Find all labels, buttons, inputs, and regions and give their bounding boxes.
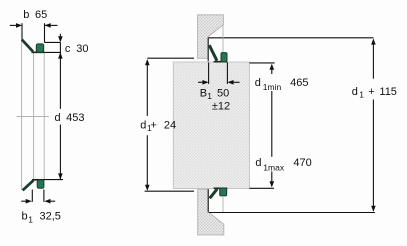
svg-text:50: 50 (217, 87, 229, 99)
svg-text:d: d (55, 112, 61, 124)
svg-text:453: 453 (66, 112, 84, 124)
svg-text:+: + (368, 86, 374, 98)
svg-text:c: c (65, 43, 71, 55)
svg-text:1max: 1max (263, 162, 285, 172)
svg-text:30: 30 (76, 43, 88, 55)
svg-text:465: 465 (290, 77, 308, 89)
svg-text:1: 1 (207, 91, 212, 101)
svg-text:+: + (150, 119, 156, 131)
svg-text:b: b (23, 9, 29, 21)
svg-text:24: 24 (164, 119, 176, 131)
svg-text:1: 1 (359, 90, 364, 100)
svg-text:d: d (255, 157, 261, 169)
svg-text:1min: 1min (263, 82, 282, 92)
svg-text:115: 115 (379, 86, 397, 98)
svg-text:d: d (352, 86, 358, 98)
svg-text:d: d (140, 119, 146, 131)
svg-text:1: 1 (28, 215, 33, 225)
svg-text:B: B (200, 87, 207, 99)
svg-text:470: 470 (293, 157, 311, 169)
svg-text:±12: ±12 (212, 101, 230, 113)
svg-text:b: b (22, 211, 28, 223)
svg-text:32,5: 32,5 (40, 211, 61, 223)
svg-text:d: d (255, 77, 261, 89)
svg-text:65: 65 (35, 9, 47, 21)
